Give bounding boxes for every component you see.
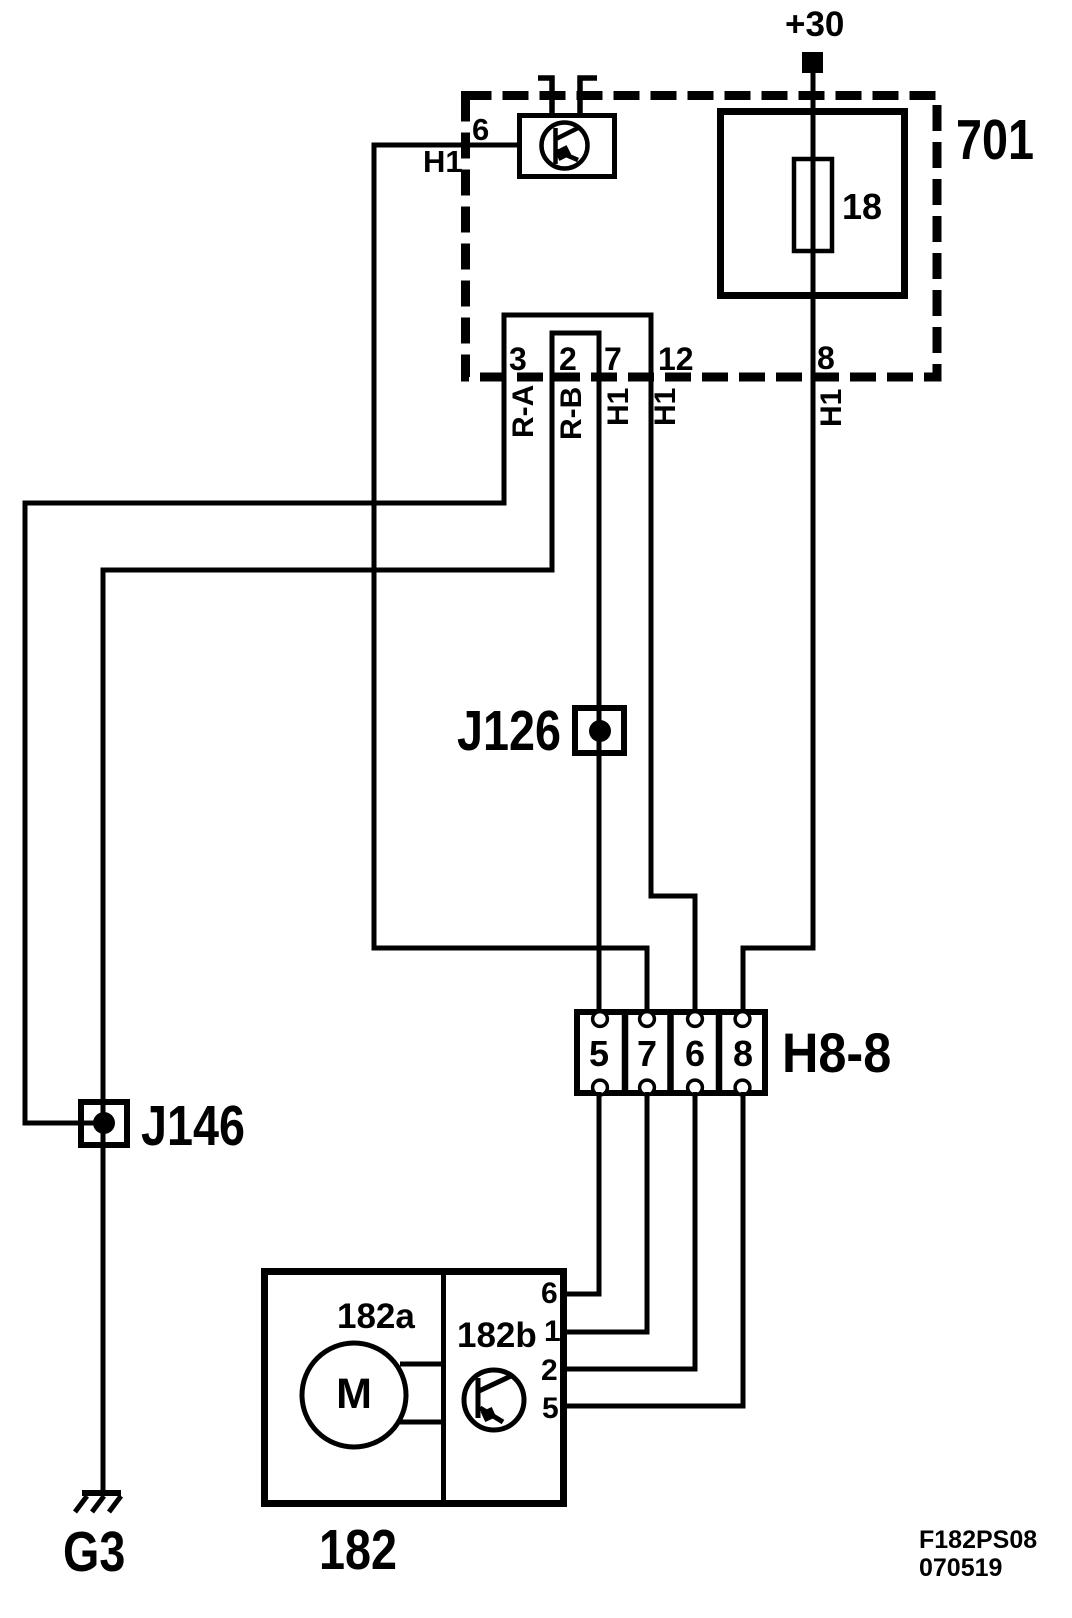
svg-text:J146: J146 bbox=[141, 1095, 245, 1158]
svg-text:182: 182 bbox=[319, 1519, 397, 1582]
svg-text:12: 12 bbox=[658, 341, 694, 377]
svg-text:1: 1 bbox=[544, 1315, 561, 1348]
svg-text:H8-8: H8-8 bbox=[782, 1023, 891, 1085]
pump unit 182 box bbox=[265, 1272, 564, 1504]
svg-text:H1: H1 bbox=[815, 389, 848, 427]
svg-text:070519: 070519 bbox=[919, 1554, 1002, 1582]
svg-text:6: 6 bbox=[472, 112, 489, 147]
relay coil box in 701 bbox=[520, 116, 615, 177]
relay coil stub right with hook bbox=[580, 78, 597, 113]
svg-text:8: 8 bbox=[733, 1033, 753, 1074]
connector H8-8 bottom pin circles bbox=[593, 1080, 750, 1095]
fuse 18 box bbox=[721, 112, 905, 296]
wire H8-8 pin 5 to 182 pin 6 bbox=[563, 1092, 599, 1294]
svg-text:182a: 182a bbox=[337, 1297, 415, 1336]
svg-text:F182PS08: F182PS08 bbox=[919, 1526, 1037, 1554]
fuse holder 701 dashed enclosure bbox=[466, 96, 938, 378]
svg-text:5: 5 bbox=[542, 1392, 559, 1425]
182 divider line bbox=[441, 1271, 446, 1504]
relay coil stub left with hook bbox=[538, 78, 552, 113]
svg-text:M: M bbox=[336, 1370, 372, 1418]
svg-text:+30: +30 bbox=[785, 5, 844, 44]
wire H8-8 pin 6 to 182 pin 2 bbox=[563, 1092, 695, 1369]
svg-text:18: 18 bbox=[842, 186, 882, 227]
svg-text:2: 2 bbox=[559, 341, 577, 377]
motor 182a stub wires bbox=[400, 1362, 443, 1367]
wire H8-8 pin 8 to 182 pin 5 bbox=[563, 1092, 743, 1406]
wire relay pin 6 to H8-8 pin 7 bbox=[374, 145, 647, 1016]
svg-text:3: 3 bbox=[509, 341, 527, 377]
svg-text:G3: G3 bbox=[63, 1521, 125, 1584]
ground G3 symbol bbox=[75, 1493, 121, 1512]
relay coil circle symbol bbox=[542, 123, 588, 169]
svg-text:H1: H1 bbox=[423, 144, 463, 179]
svg-text:7: 7 bbox=[604, 341, 622, 377]
svg-text:701: 701 bbox=[956, 109, 1034, 172]
svg-text:5: 5 bbox=[589, 1033, 609, 1074]
wire +30 through fuse 18 down to H8-8 pin 8 bbox=[743, 70, 813, 1016]
junction J126 box bbox=[575, 708, 624, 753]
svg-text:8: 8 bbox=[817, 340, 835, 376]
connector H8-8 cell dividers bbox=[622, 1009, 629, 1096]
junction J126 dot bbox=[589, 720, 611, 742]
svg-text:7: 7 bbox=[637, 1033, 657, 1074]
svg-text:R-B: R-B bbox=[555, 387, 588, 440]
motor 182a circle bbox=[302, 1343, 406, 1447]
connector H8-8 pin numbers 5 7 6 8 bbox=[589, 1033, 753, 1074]
svg-text:R-A: R-A bbox=[507, 385, 540, 438]
svg-text:H1: H1 bbox=[602, 388, 635, 426]
svg-text:6: 6 bbox=[685, 1033, 705, 1074]
connector H8-8 outer box bbox=[577, 1012, 765, 1093]
wire H8-8 pin 7 to 182 pin 1 bbox=[563, 1092, 647, 1332]
power feed +30 terminal bbox=[785, 5, 844, 73]
connector H8-8 top pin circles bbox=[593, 1012, 750, 1027]
fuse 18 element bbox=[794, 159, 832, 251]
wire pin 12 link / pin 3 / J146 branch bbox=[25, 315, 695, 1123]
junction J146 box bbox=[81, 1102, 127, 1145]
wire pin 7 link / pin 2 / J146 / ground bbox=[103, 333, 599, 1490]
svg-text:H1: H1 bbox=[649, 388, 682, 426]
svg-text:6: 6 bbox=[541, 1277, 558, 1310]
svg-text:182b: 182b bbox=[457, 1316, 537, 1355]
junction J146 dot bbox=[93, 1112, 115, 1134]
svg-text:2: 2 bbox=[541, 1354, 558, 1387]
svg-text:J126: J126 bbox=[457, 700, 561, 763]
sender 182b circle symbol bbox=[464, 1370, 524, 1430]
